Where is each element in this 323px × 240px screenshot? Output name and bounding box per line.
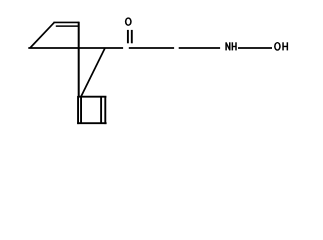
cyclobutane inner vertical left (double line) xyxy=(80,97,82,124)
bond chain C to cyclobutane ring (diagonal) xyxy=(81,48,105,97)
atom label NH xyxy=(226,42,236,50)
cyclobutane ring top edge xyxy=(78,96,107,98)
ring bond C2=C3 inner (double bond, second line) xyxy=(56,25,79,27)
cyclobutane ring right outer edge xyxy=(104,96,106,124)
cyclobutane inner vertical right (double line) xyxy=(100,97,102,124)
chain bond segment C (CH2 to N) xyxy=(179,47,220,49)
chain bond segment B (carbonyl C to CH2) xyxy=(129,47,174,49)
main chain bond segment A (C1 to carbonyl C) xyxy=(28,47,123,49)
bond N-O (between NH and OH) xyxy=(238,47,272,49)
cyclobutane ring left outer edge xyxy=(77,96,79,124)
ring bond C3-C4 vertical (top bond to cyclobutane) xyxy=(78,22,80,97)
ring bond C1-C2 (left diagonal of cyclohexene ring) xyxy=(30,22,55,48)
carbonyl C=O double bond line 2 xyxy=(131,30,133,43)
carbonyl C=O double bond line 1 xyxy=(127,30,129,43)
ring bond C2=C3 top (double bond, main line) xyxy=(54,21,80,23)
cyclobutane ring bottom edge xyxy=(77,122,106,124)
atom label OH xyxy=(274,42,287,51)
atom label O (carbonyl oxygen) xyxy=(125,17,132,26)
